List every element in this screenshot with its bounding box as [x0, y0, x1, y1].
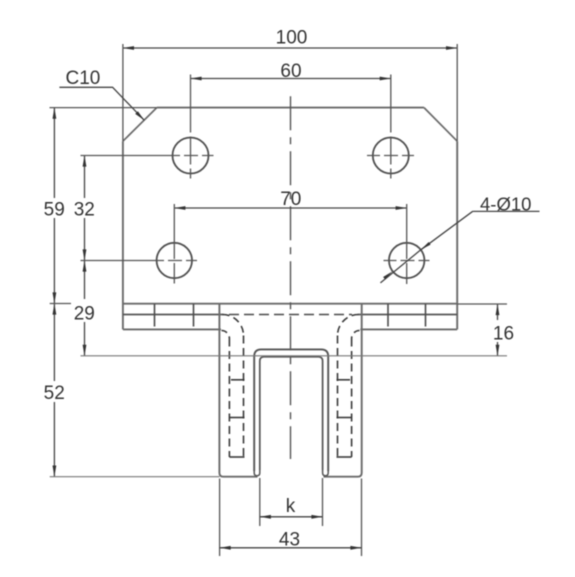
fork left leg outer edge — [219, 304, 257, 477]
hole bottom-left cross — [151, 260, 197, 262]
dim 43 arrows — [220, 546, 231, 550]
dim 70 ext left / hole centerline — [173, 204, 175, 284]
plate left edge — [122, 141, 124, 329]
dim 29 line upper — [84, 261, 86, 300]
dim 16 line lower — [497, 342, 499, 356]
flange tick 2 — [193, 304, 195, 327]
hidden fillet arc right inner — [352, 331, 360, 339]
svg-text:k: k — [286, 496, 296, 517]
dim 29 line lower — [84, 322, 86, 356]
dim 52 line lower — [53, 402, 55, 477]
flange bottom edge right — [360, 328, 457, 330]
hole bottom-left circle — [157, 243, 192, 278]
hole top-left cross — [167, 155, 214, 157]
flange mid line left solid — [123, 314, 223, 316]
slot right wall bottom hairpin — [323, 470, 329, 476]
dim 100 ext left — [122, 44, 124, 141]
dim 60 line — [191, 78, 391, 80]
fork right leg outer edge — [324, 304, 362, 477]
hidden left rung 2 — [229, 417, 245, 419]
dim 32 arrows — [83, 156, 87, 167]
slot outer U profile — [254, 349, 328, 471]
svg-text:4-Ø10: 4-Ø10 — [480, 194, 531, 215]
leader C10 arrow — [135, 111, 144, 120]
ext line 59/52 junction a — [50, 303, 71, 305]
dim k line — [260, 516, 323, 518]
dim 59 line lower — [53, 218, 55, 304]
svg-text:70: 70 — [280, 189, 301, 210]
leader 4-d10 diagonal — [380, 211, 473, 283]
ext line legs bottom — [50, 476, 220, 478]
hidden right rung 2 — [337, 417, 353, 419]
dim 43 ext right — [361, 479, 363, 557]
ext line 32 bottom row — [81, 260, 152, 262]
leader C10 — [59, 87, 144, 120]
flange tick 4 — [425, 304, 427, 327]
ext line top edge to 59 — [50, 107, 157, 109]
flange mid line right solid — [358, 314, 457, 316]
dim 29 arrows — [83, 261, 87, 272]
dim 70 line — [174, 207, 406, 209]
dim 43 line — [220, 547, 362, 549]
hidden left leg bottom cap — [229, 456, 244, 458]
dim 60 arrows — [191, 77, 202, 81]
dim 32 line lower — [84, 218, 86, 261]
slot inner U profile — [260, 357, 323, 470]
hole bottom-right circle — [389, 243, 424, 278]
hidden right leg bottom cap — [337, 456, 352, 458]
dim 100 arrows — [123, 46, 134, 50]
dim 70 arrows — [174, 206, 185, 210]
hidden fillet arc right outer — [338, 315, 359, 336]
dim 52 line upper — [53, 304, 55, 382]
svg-text:43: 43 — [279, 530, 300, 551]
dim 100 line — [123, 47, 457, 49]
svg-text:32: 32 — [74, 200, 95, 221]
hole top-right circle — [373, 138, 409, 174]
dim 43 ext left — [219, 479, 221, 557]
ext line slot-top reference long — [81, 355, 508, 357]
svg-text:59: 59 — [44, 200, 65, 221]
hidden left rung 1 — [231, 379, 245, 381]
slot left wall bottom hairpin — [254, 470, 260, 476]
dim 60 ext left / hole centerline — [190, 75, 192, 179]
leader 4-d10 arrow upper — [421, 242, 431, 250]
dim 70 ext right / hole centerline — [406, 204, 408, 284]
ext line flange top right — [457, 303, 507, 305]
flange bottom edge left — [123, 328, 221, 330]
ext line 32 top row — [81, 155, 168, 157]
dim 60 ext right / hole centerline — [390, 75, 392, 179]
dim 59 line upper — [53, 108, 55, 198]
svg-text:60: 60 — [280, 61, 301, 82]
plate top edge — [157, 107, 424, 109]
flange mid hidden dashed across fork — [229, 314, 352, 316]
flange tick 3 — [387, 304, 389, 327]
hole top-left circle — [173, 138, 209, 174]
leader 4-d10 arrow lower — [383, 271, 393, 279]
svg-text:100: 100 — [276, 28, 308, 49]
flange top edge — [123, 303, 457, 305]
dim k arrows — [260, 515, 271, 519]
leader 4-d10 underline — [473, 210, 540, 212]
hidden right leg line b — [337, 336, 339, 458]
chamfer C10 left edge — [123, 108, 157, 142]
svg-text:29: 29 — [74, 304, 95, 325]
vertical centerline — [290, 96, 292, 459]
dim 16 arrows — [496, 304, 500, 315]
hole bottom-right cross — [384, 260, 430, 262]
hidden right leg line a — [351, 339, 353, 458]
flange tick 1 — [154, 304, 156, 327]
svg-text:52: 52 — [44, 383, 65, 404]
hidden left leg line a — [228, 339, 230, 458]
plate right edge — [456, 141, 458, 329]
hidden right rung 1 — [337, 379, 351, 381]
dim k ext left — [259, 478, 261, 526]
hidden fillet arc left outer — [223, 315, 244, 336]
svg-text:C10: C10 — [66, 68, 101, 89]
dim 16 line upper — [497, 304, 499, 320]
hidden fillet arc left inner — [222, 331, 230, 339]
hidden left leg line b — [243, 336, 245, 458]
dim 52 arrows — [53, 304, 57, 315]
dim k ext right — [322, 478, 324, 526]
chamfer C10 right edge — [424, 108, 457, 142]
dim 59 arrows — [53, 108, 57, 119]
svg-text:16: 16 — [493, 324, 514, 345]
dim 32 line upper — [84, 156, 86, 199]
dim 100 ext right — [456, 44, 458, 141]
hole top-right cross — [367, 155, 414, 157]
